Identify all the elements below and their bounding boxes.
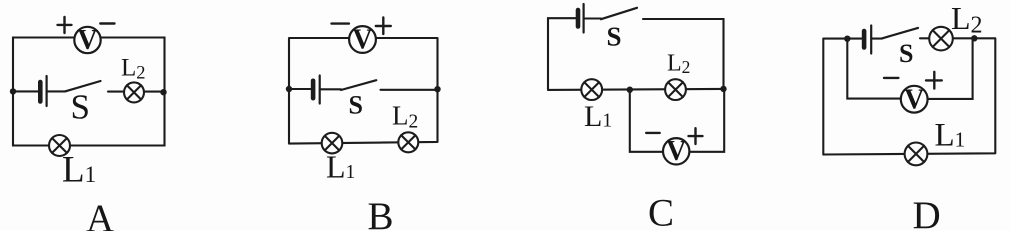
wire: C middle branch xyxy=(548,89,724,90)
battery in B (short thick plate) xyxy=(311,81,316,98)
polarity + of voltmeter in B xyxy=(376,17,391,34)
svg-text:L1: L1 xyxy=(584,100,612,133)
svg-text:S: S xyxy=(607,22,622,52)
svg-text:L1: L1 xyxy=(62,150,96,191)
polarity - of voltmeter in C xyxy=(646,132,660,134)
svg-text:S: S xyxy=(899,39,913,68)
battery in A (long thin plate) xyxy=(45,76,47,106)
svg-text:D: D xyxy=(913,194,941,231)
svg-text:C: C xyxy=(648,192,674,232)
lamp L2 in D xyxy=(929,27,953,51)
polarity + of voltmeter in D xyxy=(926,72,942,89)
lamp L2 in B xyxy=(398,132,418,152)
switch S blade in C xyxy=(601,8,637,19)
svg-text:B: B xyxy=(368,195,394,231)
wire: B middle branch left segment xyxy=(289,88,311,90)
svg-text:S: S xyxy=(349,91,363,120)
svg-text:V: V xyxy=(904,84,924,115)
battery in D (long thin plate) xyxy=(870,26,872,54)
svg-text:L1: L1 xyxy=(326,149,355,185)
lamp L1 in D xyxy=(905,143,928,166)
node: C middle junction xyxy=(627,87,633,93)
wire: D voltmeter branch xyxy=(847,38,972,99)
wire: circuit D outer loop xyxy=(823,38,995,154)
wire: C battery to switch xyxy=(584,17,601,19)
wire: A battery to switch xyxy=(47,90,65,92)
node: C right junction xyxy=(720,86,726,92)
svg-text:L2: L2 xyxy=(667,51,690,78)
battery in C (short thick plate) xyxy=(576,10,581,27)
lamp L2 in A xyxy=(124,82,144,102)
wire: B battery to switch xyxy=(320,88,341,90)
svg-text:V: V xyxy=(77,25,97,56)
polarity + of voltmeter in C xyxy=(689,128,703,144)
battery in A (short thick plate) xyxy=(38,82,43,102)
voltmeter U in A xyxy=(74,25,100,56)
svg-text:V: V xyxy=(352,25,372,56)
wire: C switch to top-right corner and down xyxy=(643,19,724,89)
lamp L1 in C xyxy=(581,79,602,100)
node: D right junction xyxy=(971,35,977,41)
wire: B switch to right side xyxy=(381,89,438,91)
svg-text:A: A xyxy=(86,197,114,231)
battery in C (long thin plate) xyxy=(582,4,584,33)
wire: C voltmeter sub-branch xyxy=(630,89,724,152)
battery in D (short thick plate) xyxy=(862,31,867,48)
node: B right junction xyxy=(434,86,440,92)
svg-text:L2: L2 xyxy=(951,0,983,38)
svg-text:L2: L2 xyxy=(392,101,418,133)
svg-text:L2: L2 xyxy=(121,55,146,84)
svg-text:V: V xyxy=(666,136,686,167)
wire: A middle branch left segment xyxy=(13,90,38,92)
voltmeter U in B xyxy=(349,25,376,56)
lamp L2 in C xyxy=(665,79,686,100)
wire: circuit C top-left segment xyxy=(548,18,576,90)
node: B left junction xyxy=(286,86,292,92)
svg-text:S: S xyxy=(71,88,90,127)
node: D left junction xyxy=(844,36,850,42)
voltmeter U in C xyxy=(663,136,689,167)
polarity + of voltmeter in A xyxy=(58,17,72,33)
polarity - of voltmeter in A xyxy=(100,22,114,24)
node: A right junction xyxy=(160,89,166,95)
wire: circuit A outer loop xyxy=(13,38,165,146)
wire: A switch to right side xyxy=(108,91,165,93)
polarity - of voltmeter in B xyxy=(332,22,349,24)
switch S blade in D xyxy=(882,28,918,39)
battery in B (long thin plate) xyxy=(319,76,321,104)
node: A left junction xyxy=(10,88,16,94)
switch S blade in A xyxy=(65,81,101,91)
voltmeter U in D xyxy=(901,84,928,115)
switch S blade in B xyxy=(341,80,376,90)
lamp L1 in B xyxy=(322,133,343,154)
polarity - of voltmeter in D xyxy=(884,77,898,79)
svg-text:L1: L1 xyxy=(935,117,966,153)
lamp L1 in A xyxy=(49,135,70,156)
wire: circuit B outer loop xyxy=(289,38,438,144)
